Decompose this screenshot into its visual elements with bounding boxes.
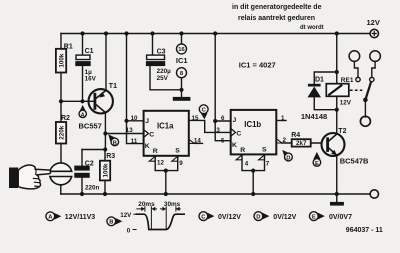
svg-text:BC547B: BC547B xyxy=(340,156,369,165)
svg-text:K: K xyxy=(145,143,150,150)
svg-text:R4: R4 xyxy=(291,132,300,139)
svg-text:11: 11 xyxy=(131,138,138,145)
svg-text:R1: R1 xyxy=(64,44,73,51)
svg-text:0V/0V7: 0V/0V7 xyxy=(329,214,352,221)
svg-text:T1: T1 xyxy=(109,83,117,90)
svg-text:10: 10 xyxy=(131,115,138,122)
svg-text:E: E xyxy=(312,215,316,221)
svg-text:7: 7 xyxy=(266,161,270,168)
svg-text:1: 1 xyxy=(281,115,285,122)
svg-text:0V/12V: 0V/12V xyxy=(273,214,296,221)
svg-text:2k7: 2k7 xyxy=(296,140,307,147)
svg-text:30ms: 30ms xyxy=(164,201,181,208)
svg-text:BC557: BC557 xyxy=(79,121,102,130)
svg-text:0: 0 xyxy=(127,227,131,234)
svg-text:0V/12V: 0V/12V xyxy=(218,214,241,221)
svg-text:100k: 100k xyxy=(58,53,65,68)
svg-text:13: 13 xyxy=(126,127,133,134)
svg-text:220n: 220n xyxy=(85,185,100,192)
svg-text:D1: D1 xyxy=(315,77,324,84)
svg-text:25V: 25V xyxy=(157,75,169,82)
svg-text:D: D xyxy=(286,155,290,161)
svg-text:R3: R3 xyxy=(106,153,115,160)
svg-text:IC1 = 4027: IC1 = 4027 xyxy=(239,60,276,69)
svg-text:K: K xyxy=(232,142,237,149)
svg-text:C: C xyxy=(236,130,241,137)
svg-text:3: 3 xyxy=(216,127,220,134)
svg-text:2: 2 xyxy=(283,137,287,144)
svg-text:C3: C3 xyxy=(157,49,166,56)
svg-text:C1: C1 xyxy=(85,48,94,55)
svg-text:A: A xyxy=(81,112,85,118)
svg-text:IC1a: IC1a xyxy=(157,121,174,130)
svg-text:R2: R2 xyxy=(61,115,70,122)
svg-text:964037 - 11: 964037 - 11 xyxy=(346,227,383,234)
svg-text:IC1: IC1 xyxy=(176,56,188,65)
svg-text:16V: 16V xyxy=(85,75,97,82)
svg-text:14: 14 xyxy=(194,138,201,145)
svg-text:12V: 12V xyxy=(340,100,352,107)
svg-text:B: B xyxy=(109,220,113,226)
svg-text:16: 16 xyxy=(178,47,185,53)
svg-text:S: S xyxy=(175,148,180,155)
svg-text:E: E xyxy=(315,161,319,167)
svg-text:T2: T2 xyxy=(338,128,346,135)
svg-text:R: R xyxy=(240,147,245,154)
svg-text:5: 5 xyxy=(221,137,225,144)
svg-text:1N4148: 1N4148 xyxy=(301,112,327,121)
svg-text:20ms: 20ms xyxy=(138,201,155,208)
svg-text:S: S xyxy=(262,147,267,154)
svg-text:D: D xyxy=(256,215,260,221)
svg-text:6: 6 xyxy=(221,115,225,122)
svg-text:220k: 220k xyxy=(58,125,65,140)
svg-text:12V: 12V xyxy=(120,212,132,219)
svg-text:J: J xyxy=(233,117,237,124)
svg-text:in dit generatorgedeelte de: in dit generatorgedeelte de xyxy=(232,4,322,11)
svg-text:IC1b: IC1b xyxy=(244,120,261,129)
svg-text:12V: 12V xyxy=(367,18,380,27)
svg-text:relais aantrekt geduren: relais aantrekt geduren xyxy=(238,15,315,22)
svg-text:R: R xyxy=(153,148,158,155)
svg-text:4: 4 xyxy=(245,161,249,168)
svg-text:12: 12 xyxy=(157,160,164,167)
svg-text:12V/11V3: 12V/11V3 xyxy=(65,214,95,221)
svg-text:dt wordt: dt wordt xyxy=(300,25,324,31)
svg-text:B: B xyxy=(113,140,117,146)
svg-text:15: 15 xyxy=(192,115,199,122)
svg-text:9: 9 xyxy=(179,160,183,167)
svg-text:100k: 100k xyxy=(102,163,109,178)
svg-text:J: J xyxy=(145,118,149,125)
svg-text:C2: C2 xyxy=(85,160,94,167)
svg-text:RE1: RE1 xyxy=(341,77,354,84)
svg-text:C: C xyxy=(149,131,154,138)
